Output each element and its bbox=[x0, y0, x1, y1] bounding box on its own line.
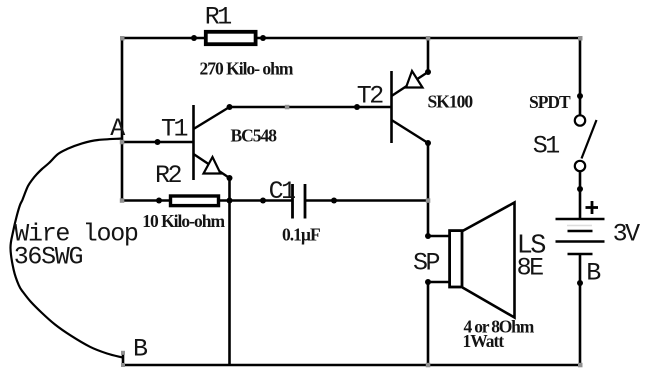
wire T2 collector vertical bbox=[427, 143, 430, 236]
junction dot R1 right lead bbox=[260, 35, 266, 41]
junction dot switch top lead bbox=[577, 93, 583, 99]
anchor marker top-right corner bbox=[578, 36, 583, 41]
wire loop arc bbox=[10, 139, 122, 358]
resistor R2 bbox=[171, 196, 219, 206]
wire T1 emitter vertical bbox=[228, 178, 231, 365]
switch S1 bbox=[575, 115, 597, 171]
anchor marker C1 collector node bbox=[426, 198, 431, 203]
battery BT1 3V bbox=[556, 219, 605, 254]
battery plus sign bbox=[586, 201, 599, 214]
wire loop terminal stub B bbox=[122, 353, 125, 366]
junction dot C1 left lead bbox=[260, 198, 266, 204]
junction dot R2 right node bbox=[227, 198, 233, 204]
junction dot T1 base lead bbox=[155, 139, 161, 145]
wire C1 to collector node bbox=[305, 199, 428, 202]
svg-text:3V: 3V bbox=[613, 220, 641, 249]
anchor marker node A bbox=[120, 140, 125, 145]
wire top rail bbox=[122, 37, 580, 40]
svg-text:0.1µF: 0.1µF bbox=[282, 225, 320, 245]
wire battery to ground bbox=[579, 254, 582, 365]
junction dot battery bottom lead bbox=[577, 280, 583, 286]
junction dot switch bottom lead bbox=[577, 186, 583, 192]
anchor marker stub B bottom bbox=[121, 363, 125, 367]
wire T2 base bbox=[230, 106, 392, 109]
junction dot R1 left lead bbox=[191, 35, 197, 41]
capacitor C1 plates bbox=[293, 184, 306, 219]
svg-text:SK100: SK100 bbox=[428, 92, 474, 112]
anchor marker top-left corner bbox=[120, 36, 125, 41]
svg-text:270 Kilo- ohm: 270 Kilo- ohm bbox=[200, 59, 294, 79]
anchor marker speaker ground node bbox=[426, 363, 431, 368]
wire speaker top lead bbox=[428, 235, 450, 238]
wire switch to battery bbox=[579, 172, 582, 219]
junction dot T1 emitter node bbox=[227, 175, 233, 181]
svg-text:R2: R2 bbox=[155, 161, 182, 190]
wire R2 to C1 bbox=[218, 199, 293, 202]
wire R2 row left bbox=[122, 199, 171, 202]
junction dot T2 emitter lead bbox=[425, 69, 431, 75]
junction dot speaker bottom lead bbox=[425, 279, 431, 285]
svg-text:8E: 8E bbox=[517, 254, 544, 283]
anchor marker bottom-right corner bbox=[578, 363, 583, 368]
svg-text:C1: C1 bbox=[269, 177, 296, 206]
anchor marker T2 base wire bbox=[285, 105, 290, 110]
junction dot T2 collector lead bbox=[425, 140, 431, 146]
junction dot speaker top lead bbox=[425, 233, 431, 239]
junction dot C1 right lead bbox=[331, 198, 337, 204]
svg-text:BC548: BC548 bbox=[231, 126, 278, 146]
svg-text:T2: T2 bbox=[357, 82, 384, 111]
anchor marker stub B top bbox=[121, 351, 125, 355]
svg-text:SPDT: SPDT bbox=[529, 92, 571, 112]
anchor marker top rail T2 node bbox=[426, 36, 431, 41]
wire T2 emitter vertical bbox=[427, 38, 430, 72]
transistor T2 bbox=[392, 71, 429, 143]
wire bottom rail bbox=[123, 364, 580, 367]
svg-text:1Watt: 1Watt bbox=[463, 331, 505, 351]
svg-text:S1: S1 bbox=[533, 132, 560, 161]
wire speaker bottom lead bbox=[428, 281, 450, 284]
svg-text:36SWG: 36SWG bbox=[14, 243, 83, 272]
junction dot T1 collector node bbox=[227, 104, 233, 110]
svg-text:SP: SP bbox=[413, 249, 440, 278]
anchor marker left rail corner bbox=[120, 198, 125, 203]
svg-text:R1: R1 bbox=[205, 3, 232, 32]
transistor T1 bbox=[194, 105, 230, 180]
speaker SP bbox=[450, 203, 515, 318]
wire T1 base bbox=[122, 141, 194, 144]
junction dot T2 base lead bbox=[354, 104, 360, 110]
wire speaker to ground bbox=[427, 282, 430, 365]
wire left rail bbox=[121, 38, 124, 201]
svg-text:10 Kilo-ohm: 10 Kilo-ohm bbox=[142, 211, 225, 231]
junction dot R2 left lead bbox=[156, 198, 162, 204]
resistor R1 bbox=[206, 32, 256, 44]
wire right rail to switch bbox=[579, 38, 582, 116]
svg-text:T1: T1 bbox=[161, 115, 188, 144]
